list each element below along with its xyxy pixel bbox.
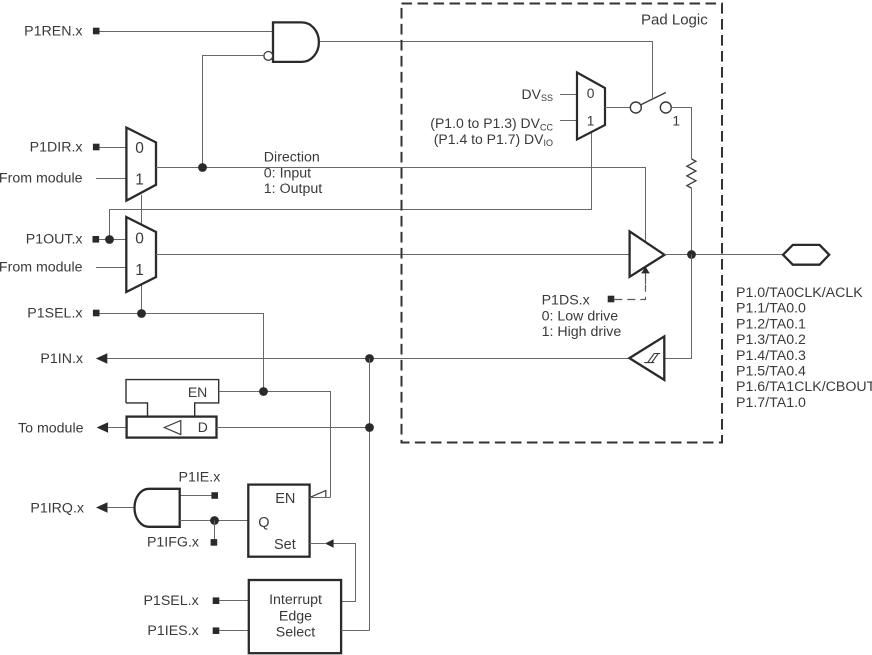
hysteresis symbol in U4 [644, 354, 660, 363]
wire DVss to mux M3 input 0 [560, 94, 577, 96]
wire pad node to schmitt trigger U4 [664, 255, 691, 359]
mux M1 (P1DIR select) [126, 128, 156, 201]
svg-text:1: 1 [135, 172, 144, 189]
node P1IN junction [365, 354, 374, 363]
svg-text:From module: From module [0, 171, 83, 187]
mux M2 (P1OUT select) [126, 217, 156, 292]
switch S1 contact left [630, 102, 641, 113]
svg-text:From module: From module [0, 260, 83, 276]
svg-text:1: 1 [672, 114, 680, 129]
interrupt edge select box U6 [249, 580, 341, 653]
inverted input bubble of U1 [264, 52, 273, 61]
node latch EN junction [259, 387, 268, 396]
terminal square P1IFG.x [211, 539, 218, 546]
node D input junction [365, 423, 374, 432]
svg-text:Set: Set [274, 537, 296, 553]
wire Direction node to U1 inverted input [203, 56, 264, 168]
terminal square P1SEL.x interrupt [213, 597, 220, 604]
svg-text:Direction: Direction [264, 150, 320, 166]
wire U5 EN input stub [310, 497, 331, 499]
svg-text:Edge: Edge [279, 608, 312, 624]
terminal square P1IE.x [211, 492, 218, 499]
arrow drive strength into buffer [641, 267, 650, 274]
wire switch S1 to resistor R1 [671, 108, 691, 159]
svg-text:0: 0 [135, 140, 144, 157]
wire P1SEL to latch L1 EN and interrupt flag EN [219, 392, 331, 498]
arrow To module [97, 422, 109, 432]
wire U1 output to switch S1 [320, 42, 653, 98]
svg-text:P1.6/TA1CLK/CBOUT: P1.6/TA1CLK/CBOUT [736, 379, 872, 395]
svg-text:EN: EN [188, 384, 207, 400]
resistor R1 (pullup/pulldown) [687, 159, 696, 188]
output buffer U2 [630, 231, 665, 276]
svg-text:P1IFG.x: P1IFG.x [147, 534, 199, 550]
svg-text:1: High drive: 1: High drive [542, 324, 622, 340]
wire P1SEL.x to latch enable [100, 314, 264, 392]
wire U2 output to pad [665, 254, 784, 256]
wire P1IFG node to square [214, 521, 216, 540]
terminal square P1DIR.x [93, 144, 100, 151]
node P1OUT junction [105, 235, 114, 244]
svg-text:Q: Q [258, 515, 269, 531]
wire From module to mux M2 input 1 [96, 267, 126, 269]
svg-text:P1IN.x: P1IN.x [40, 351, 83, 367]
interrupt flag latch U5 box [248, 485, 309, 557]
svg-text:(P1.0 to P1.3) DVCC: (P1.0 to P1.3) DVCC [430, 115, 553, 132]
schmitt trigger input buffer U4 [629, 336, 664, 380]
svg-text:Select: Select [276, 625, 315, 641]
node P1IFG junction [210, 516, 219, 525]
arrow into Set input [325, 539, 334, 547]
wire resistor R1 to pad node [691, 188, 693, 254]
svg-text:Pad Logic: Pad Logic [641, 11, 708, 28]
svg-text:P1OUT.x: P1OUT.x [26, 232, 83, 248]
svg-text:P1.1/TA0.0: P1.1/TA0.0 [736, 301, 806, 317]
AND gate U3 (interrupt request, points left) [135, 489, 180, 527]
svg-text:1: 1 [135, 262, 144, 279]
AND gate U1 (pullup/pulldown enable) [273, 22, 319, 62]
wire mux M1 output (Direction) to output buffer enable [156, 168, 646, 242]
svg-text:D: D [198, 419, 208, 435]
wire P1OUT node to mux M3 select [110, 133, 592, 240]
dashed wire P1DS.x to output buffer drive select [614, 285, 645, 300]
wire latch D output to module [108, 427, 127, 429]
svg-text:Interrupt: Interrupt [269, 592, 322, 608]
svg-text:To module: To module [18, 420, 84, 436]
svg-text:0: Input: 0: Input [264, 165, 311, 181]
node P1SEL junction [137, 309, 146, 318]
terminal square P1SEL.x [93, 310, 100, 317]
svg-text:P1IES.x: P1IES.x [147, 623, 198, 639]
wire P1REN.x to AND gate U1 input 1 [100, 31, 274, 33]
wire AND gate U3 output to P1IRQ.x [107, 507, 134, 509]
svg-text:P1.5/TA0.4: P1.5/TA0.4 [736, 364, 806, 380]
svg-text:1: Output: 1: Output [264, 181, 322, 197]
wire From module to mux M1 input 1 [96, 178, 126, 180]
latch L1 D box [127, 417, 217, 438]
svg-text:(P1.4 to P1.7) DVIO: (P1.4 to P1.7) DVIO [434, 131, 553, 148]
svg-text:0: 0 [135, 231, 144, 248]
arrow P1IRQ.x [96, 502, 108, 512]
svg-text:P1IRQ.x: P1IRQ.x [30, 500, 84, 516]
wire P1SEL select to mux M2 select [141, 284, 143, 314]
wire P1IN node to latch D input [217, 427, 370, 429]
latch L1 EN box [126, 380, 219, 417]
svg-text:EN: EN [275, 491, 295, 507]
terminal square P1IES.x [213, 627, 220, 634]
terminal square P1REN.x [93, 28, 100, 35]
wire P1SEL select to mux M1 select [141, 195, 143, 225]
wire U6 output to P1IN tap [341, 630, 369, 632]
wire P1IE.x to AND gate U3 [180, 495, 212, 497]
svg-text:P1REN.x: P1REN.x [24, 23, 82, 39]
wire interrupt flag Q to AND gate U3 [180, 520, 249, 522]
svg-text:P1DIR.x: P1DIR.x [30, 139, 83, 155]
wire P1IES.x to interrupt edge select [219, 630, 249, 632]
svg-text:P1.7/TA1.0: P1.7/TA1.0 [736, 395, 806, 411]
svg-text:0: Low drive: 0: Low drive [542, 309, 619, 325]
switch S1 contact right [660, 102, 671, 113]
wire P1SEL.x to interrupt edge select [219, 600, 249, 602]
svg-text:P1.2/TA0.1: P1.2/TA0.1 [736, 316, 806, 332]
wire P1OUT.x to mux M2 input 0 [99, 239, 126, 241]
Pad Logic dashed boundary [402, 4, 723, 443]
svg-text:P1SEL.x: P1SEL.x [27, 305, 82, 321]
edge trigger triangle on U5 EN [310, 491, 326, 498]
switch S1 blade [641, 93, 666, 105]
svg-text:P1.4/TA0.3: P1.4/TA0.3 [736, 348, 806, 364]
wire Set stub [310, 543, 325, 545]
wire P1IN tap to interrupt edge select [369, 359, 371, 631]
svg-text:0: 0 [587, 86, 595, 101]
svg-text:P1.0/TA0CLK/ACLK: P1.0/TA0CLK/ACLK [736, 285, 863, 301]
node Direction junction [198, 163, 207, 172]
wire P1IN.x from schmitt trigger U4 [107, 358, 629, 360]
terminal square P1OUT.x [93, 236, 100, 243]
mux M3 (pull resistor supply select) [577, 73, 605, 140]
svg-text:P1IE.x: P1IE.x [179, 469, 221, 485]
pad hexagon P1.x [783, 245, 829, 265]
svg-text:P1SEL.x: P1SEL.x [143, 593, 198, 609]
svg-text:1: 1 [587, 113, 595, 128]
svg-text:P1.3/TA0.2: P1.3/TA0.2 [736, 332, 806, 348]
arrow P1IN.x [96, 353, 108, 363]
svg-text:P1DS.x: P1DS.x [542, 292, 590, 308]
wire mux M3 output to switch S1 [605, 107, 630, 109]
wire P1DIR.x to mux M1 input 0 [100, 147, 127, 149]
latch L1 clock triangle [164, 421, 181, 435]
terminal square P1DS.x [608, 296, 615, 303]
wire mux M2 output to output buffer U2 [156, 254, 630, 256]
wire DVcc to mux M3 input 1 [560, 120, 577, 122]
node pad junction [687, 250, 696, 259]
wire U5 Set from interrupt edge select [333, 544, 355, 602]
